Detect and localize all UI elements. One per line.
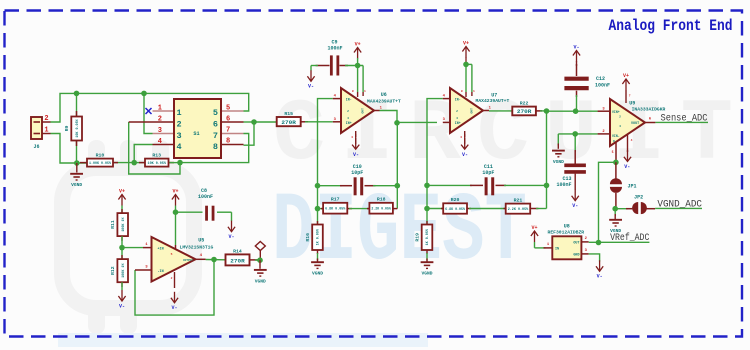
svg-text:2: 2 [177, 120, 182, 130]
svg-text:S1: S1 [193, 131, 199, 137]
svg-text:VIN-: VIN- [612, 134, 620, 138]
supply V+ at U9 [622, 73, 630, 103]
resistor R22 [512, 101, 542, 116]
svg-text:1: 1 [473, 90, 475, 93]
svg-text:7: 7 [226, 127, 230, 135]
svg-text:OUT: OUT [361, 108, 364, 114]
svg-text:U9: U9 [629, 100, 635, 106]
voltage reference U8 [548, 224, 589, 260]
svg-text:R12: R12 [110, 266, 116, 275]
svg-text:8: 8 [352, 90, 354, 93]
resistor R16 [305, 209, 323, 262]
wire IN- node down [317, 186, 319, 209]
node junction C12 bottom [573, 108, 579, 114]
svg-text:100nF: 100nF [595, 83, 610, 89]
svg-text:VGND_ADC: VGND_ADC [657, 199, 702, 211]
node junction VRef [596, 240, 602, 246]
svg-text:100K 1%: 100K 1% [121, 217, 125, 231]
watermark logo chip [62, 140, 194, 334]
supply V- at R12 [118, 282, 125, 309]
node junction U5 output [211, 257, 217, 263]
wire stage2 IN- node down [426, 185, 428, 208]
resistor R17 [318, 197, 353, 214]
svg-text:3: 3 [177, 131, 182, 141]
svg-text:V-: V- [308, 84, 314, 90]
capacitor C11 [427, 164, 547, 195]
supply V+ at U6 [354, 41, 361, 65]
node junction R17 left [315, 206, 321, 212]
node junction R22 right [540, 108, 549, 114]
wire VGND_ADC [655, 207, 702, 209]
node junction R9 bottom [74, 160, 80, 166]
svg-text:U6: U6 [381, 92, 387, 98]
svg-text:MAX4239AUT+T: MAX4239AUT+T [367, 98, 401, 104]
wire S1 pins6+8 to R15 [244, 122, 277, 145]
svg-text:-IN: -IN [158, 270, 164, 274]
svg-text:LMV321SN3T1G: LMV321SN3T1G [180, 244, 214, 250]
wire signal R22 to U9 VIN+ [547, 110, 598, 112]
svg-text:4: 4 [158, 138, 162, 146]
svg-text:2.2K 0.05%: 2.2K 0.05% [508, 207, 528, 211]
jumper JP2 [615, 195, 655, 214]
wire U8 GND to V- [589, 254, 600, 262]
node junction S1 pin6 [251, 119, 257, 125]
svg-text:5: 5 [213, 108, 218, 118]
svg-text:U8: U8 [564, 224, 570, 230]
svg-text:OUT: OUT [573, 242, 579, 246]
svg-text:100K 1%: 100K 1% [121, 263, 125, 277]
svg-text:2: 2 [456, 110, 458, 113]
wire V+ to U8 VIN [535, 243, 553, 248]
svg-text:4: 4 [460, 136, 462, 139]
svg-text:V-: V- [119, 303, 125, 309]
svg-text:R19: R19 [415, 233, 421, 242]
wire U7 output to R22 [483, 106, 512, 111]
svg-text:R11: R11 [110, 220, 116, 229]
svg-text:8: 8 [461, 90, 463, 93]
op-amp U6 [333, 88, 401, 139]
supply V- at U8 [596, 260, 603, 279]
svg-text:R10: R10 [96, 152, 105, 158]
resistor R19 [415, 209, 433, 262]
svg-text:1: 1 [44, 126, 48, 134]
svg-text:VGND: VGND [71, 182, 82, 188]
wire U6 output [374, 106, 397, 122]
svg-text:10pF: 10pF [482, 170, 494, 176]
svg-text:2: 2 [619, 116, 621, 119]
supply V- at C12 [573, 44, 580, 61]
svg-text:J6: J6 [33, 144, 39, 150]
svg-text:JP1: JP1 [627, 183, 636, 189]
node junction C11 left [424, 183, 430, 189]
node junction R9 top [74, 91, 80, 97]
resistor R9 [64, 93, 82, 163]
resistor R11 [110, 206, 128, 242]
svg-text:8: 8 [226, 138, 230, 146]
wire U7 -IN to feedback node [427, 99, 443, 186]
svg-text:100nF: 100nF [556, 182, 571, 188]
svg-text:2: 2 [347, 110, 349, 113]
wire V+ to U5 and C8 [175, 206, 177, 251]
svg-text:2: 2 [158, 116, 162, 124]
wire U6 feedback vertical [396, 123, 398, 209]
svg-text:5: 5 [612, 150, 614, 154]
wire S1 pin7 to R13 right [180, 134, 249, 163]
resistor R14 [226, 248, 261, 265]
ground VGND at R19 [421, 262, 434, 276]
node junction C13 top [572, 131, 578, 137]
watermark band [58, 333, 428, 347]
op-amp U9 [598, 99, 666, 162]
svg-text:V-: V- [624, 164, 630, 170]
node junction U7 V+ [463, 62, 469, 68]
svg-text:5: 5 [171, 253, 173, 256]
svg-text:OUT: OUT [470, 108, 473, 114]
svg-text:6: 6 [213, 120, 218, 130]
net label VRef_ADC [610, 232, 649, 244]
node junction C10 right [395, 183, 401, 189]
svg-text:270R: 270R [281, 120, 297, 126]
svg-text:R: R [613, 140, 615, 143]
switch S1 [129, 99, 244, 158]
svg-text:4: 4 [177, 142, 182, 152]
ground VGND at R14 [254, 260, 267, 284]
node junction C11 right [544, 183, 550, 189]
ground VGND at JP2 [609, 209, 622, 235]
wire U6 -IN to feedback node [318, 99, 333, 186]
svg-text:4: 4 [631, 139, 633, 142]
capacitor C8 [176, 188, 232, 221]
node junction R20 left [424, 206, 430, 212]
jumper JP1 [610, 162, 637, 208]
svg-text:Analog Front End: Analog Front End [609, 17, 733, 35]
supply diamond VGND [255, 242, 265, 261]
op-amp U5 [135, 237, 213, 288]
svg-text:1K 0.05%: 1K 0.05% [316, 229, 320, 245]
svg-text:R14: R14 [233, 248, 242, 254]
svg-text:270R: 270R [517, 109, 533, 115]
svg-text:OUTPUT: OUTPUT [183, 259, 193, 262]
wire R22 feedback vertical [546, 111, 548, 209]
svg-text:V-: V- [353, 152, 359, 158]
wire S1 pin3 branch [144, 93, 153, 133]
ground VGND at U9 VIN- [552, 151, 565, 165]
supply V- at U7 [461, 134, 468, 158]
svg-text:2.2K 0.05%: 2.2K 0.05% [371, 207, 391, 211]
wire U5 feedback loop [135, 260, 214, 316]
svg-text:C12: C12 [596, 76, 605, 82]
svg-text:VRef_ADC: VRef_ADC [610, 232, 649, 244]
supply V+ at U7 [462, 40, 469, 64]
net label Sense_ADC [661, 113, 708, 125]
node junction C9 right [355, 63, 361, 69]
node junction JP2 left [612, 206, 618, 212]
supply V+ at U8 [531, 225, 538, 248]
svg-text:10K 0.05%: 10K 0.05% [75, 119, 79, 137]
node junction R10-R13 [131, 160, 137, 166]
svg-text:7: 7 [629, 95, 631, 98]
svg-text:VIN+: VIN+ [612, 110, 620, 114]
svg-text:4: 4 [619, 125, 621, 128]
svg-text:VOUT: VOUT [631, 122, 639, 126]
supply V- at C9 [307, 70, 314, 89]
net label VGND_ADC [657, 199, 702, 211]
resistor R18 [367, 197, 397, 214]
svg-text:R17: R17 [331, 197, 340, 203]
wire S1 pin4 to node [134, 145, 152, 163]
svg-text:REF3012AIDBZR: REF3012AIDBZR [548, 229, 585, 235]
node junction R11-R12 [119, 236, 125, 250]
svg-text:4: 4 [456, 117, 458, 120]
svg-text:IN+: IN+ [346, 121, 352, 125]
wire R15 to U6 +IN [305, 121, 333, 123]
wire U5 output [196, 254, 226, 260]
svg-text:8: 8 [213, 142, 218, 152]
svg-text:U5: U5 [198, 237, 204, 243]
svg-text:100nF: 100nF [198, 194, 213, 200]
svg-text:6: 6 [226, 116, 230, 124]
svg-text:3: 3 [158, 127, 162, 135]
supply V- at C8 [228, 221, 235, 240]
wire U9 VIN- net [558, 133, 597, 135]
svg-text:IN+: IN+ [455, 121, 461, 125]
svg-text:7: 7 [213, 131, 218, 141]
svg-text:10pF: 10pF [351, 170, 363, 176]
svg-text:1: 1 [177, 108, 182, 118]
node junction R14 right [257, 257, 263, 263]
wire U9 output Sense_ADC [645, 118, 708, 123]
svg-text:VGND: VGND [312, 271, 323, 277]
svg-text:R21: R21 [514, 197, 523, 203]
svg-text:1.00K 0.05%: 1.00K 0.05% [89, 161, 111, 165]
svg-text:MAX4239AUT+T: MAX4239AUT+T [476, 98, 510, 104]
svg-text:VGND: VGND [553, 159, 564, 165]
node junction pin3 drop [141, 91, 147, 97]
svg-text:V-: V- [462, 152, 468, 158]
svg-text:+IN: +IN [158, 247, 164, 251]
svg-text:V-: V- [572, 203, 578, 209]
svg-text:R13: R13 [152, 152, 161, 158]
wire VGND branch [557, 134, 559, 149]
supply V+ at U5 [172, 188, 179, 205]
wire U8 OUT to VRef node [589, 241, 599, 243]
capacitor C13 [556, 134, 585, 190]
wire R17 to R18 [349, 208, 370, 210]
node junction R13 right [177, 160, 183, 166]
no-connect X on S1 pin1 [146, 108, 152, 114]
wire REF to U8 OUT [599, 162, 616, 242]
supply V- at U6 [352, 134, 359, 158]
wire net J6.1 to R10 and VGND [51, 134, 88, 164]
supply V- at C13 [572, 190, 579, 209]
svg-text:VGND: VGND [421, 271, 432, 277]
resistor R13 [134, 152, 180, 166]
svg-text:IN-: IN- [455, 98, 461, 102]
wire R11-R12 node to U5 +IN [122, 247, 143, 249]
wire U6 output to U7 +IN [397, 121, 437, 123]
svg-text:R9: R9 [64, 126, 70, 132]
node junction U9 REF [613, 160, 619, 166]
svg-text:V-: V- [597, 274, 603, 280]
svg-text:V-: V- [171, 305, 177, 311]
svg-text:1: 1 [158, 105, 162, 113]
svg-text:VGND: VGND [255, 278, 266, 284]
wire net J6.2 to R9 top and S1 pins 3,5 [51, 93, 249, 122]
resistor R20 [427, 197, 471, 214]
node junction C8 left [173, 209, 179, 215]
svg-text:100nF: 100nF [327, 45, 342, 51]
svg-text:1K 0.05%: 1K 0.05% [425, 229, 429, 245]
svg-text:2: 2 [171, 277, 173, 280]
wire V+ to U6 power pins [358, 66, 364, 98]
node junction C10 left [315, 183, 321, 189]
resistor R10 [80, 152, 134, 166]
svg-text:INA333AIDGKR: INA333AIDGKR [632, 107, 666, 113]
connector J6 [31, 115, 51, 150]
svg-text:4: 4 [351, 136, 353, 139]
svg-text:R18: R18 [377, 197, 386, 203]
capacitor C9 [311, 39, 363, 75]
resistor R21 [504, 197, 547, 213]
svg-text:IN: IN [555, 248, 559, 252]
node junction U6 output [394, 120, 400, 126]
ground VGND at R9 [70, 163, 83, 188]
supply V+ at R11 [118, 188, 125, 205]
svg-text:R22: R22 [520, 101, 529, 107]
svg-text:JP2: JP2 [634, 195, 643, 201]
svg-text:6.8K 0.05%: 6.8K 0.05% [325, 207, 345, 211]
svg-text:R15: R15 [284, 111, 293, 117]
wire VRef_ADC [599, 241, 650, 243]
svg-text:IN-: IN- [346, 98, 352, 102]
capacitor C10 [318, 164, 398, 195]
svg-text:4: 4 [347, 117, 349, 120]
wire S1 pin2 feedback to R13 right [129, 122, 180, 174]
svg-text:6.8K 0.05%: 6.8K 0.05% [445, 207, 465, 211]
svg-text:V-: V- [228, 234, 234, 240]
svg-text:U7: U7 [491, 92, 497, 98]
svg-text:R20: R20 [451, 197, 460, 203]
wire V+ to U7 power pins [466, 64, 472, 97]
svg-text:R16: R16 [305, 233, 311, 242]
ground VGND at R16 [311, 262, 324, 276]
supply V- at U9 [624, 150, 631, 170]
capacitor C12 [564, 61, 610, 111]
wire R20 to R21 [469, 208, 507, 210]
svg-text:GND: GND [573, 254, 579, 258]
svg-text:270R: 270R [230, 258, 246, 264]
svg-text:10K 0.05%: 10K 0.05% [148, 161, 166, 165]
resistor R15 [277, 111, 308, 126]
svg-text:1: 1 [364, 90, 366, 93]
supply V- at U5 [171, 292, 178, 311]
resistor R12 [110, 248, 128, 287]
op-amp U7 [443, 88, 510, 139]
svg-text:Sense_ADC: Sense_ADC [661, 113, 708, 125]
svg-text:2: 2 [44, 115, 48, 123]
svg-text:5: 5 [226, 105, 230, 113]
